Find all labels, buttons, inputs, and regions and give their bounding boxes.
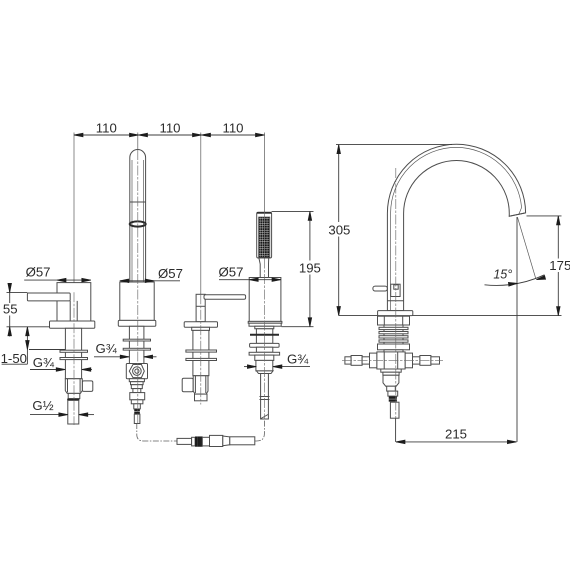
svg-text:195: 195	[299, 261, 321, 276]
svg-text:305: 305	[328, 223, 350, 238]
svg-text:55: 55	[3, 302, 18, 317]
svg-text:Ø57: Ø57	[26, 265, 51, 280]
svg-text:215: 215	[445, 427, 467, 442]
svg-text:G½: G½	[32, 398, 53, 413]
svg-text:Ø57: Ø57	[158, 266, 183, 281]
svg-text:110: 110	[159, 120, 180, 135]
svg-text:1-50: 1-50	[1, 351, 27, 366]
svg-text:110: 110	[222, 120, 243, 135]
svg-text:G¾: G¾	[287, 352, 309, 367]
svg-text:G¾: G¾	[33, 355, 55, 370]
svg-text:175: 175	[549, 258, 570, 273]
svg-text:15°: 15°	[493, 268, 512, 282]
svg-text:G¾: G¾	[96, 341, 118, 356]
svg-text:110: 110	[96, 120, 117, 135]
svg-text:Ø57: Ø57	[219, 264, 244, 279]
